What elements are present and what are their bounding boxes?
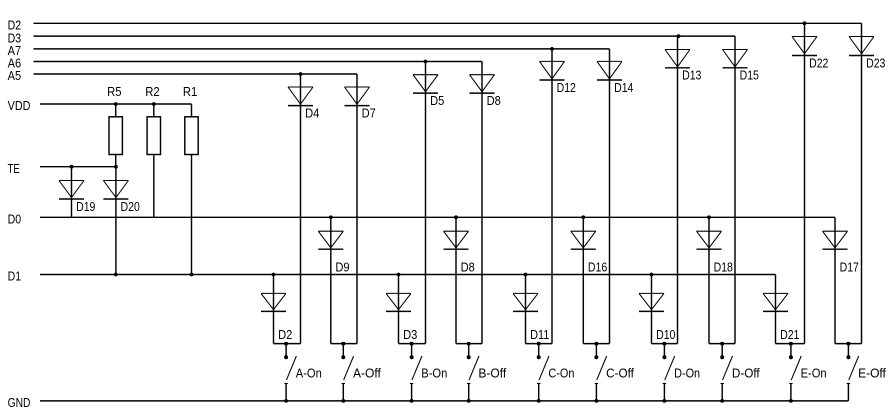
junction dot on join bar B-On bbox=[410, 342, 413, 345]
junction dot on TE at x=71.5 bbox=[70, 165, 74, 169]
switch /D-Off bbox=[720, 344, 760, 401]
wire pair join bar C-On bbox=[526, 343, 553, 345]
wire rail D0 bbox=[40, 216, 835, 218]
diode D13 (column 14) with wire down to pair join bbox=[665, 36, 701, 344]
diode D20 bbox=[103, 167, 139, 275]
wire rail A6 bbox=[34, 61, 483, 63]
diode D8 (column 7) with wire down to pair join bbox=[444, 217, 475, 343]
switch /A-Off bbox=[341, 344, 381, 401]
resistor R1 bbox=[183, 84, 198, 154]
svg-text:A-On: A-On bbox=[296, 365, 322, 380]
junction dot on D1 at x=191.5 bbox=[190, 273, 194, 277]
svg-text:D13: D13 bbox=[682, 68, 701, 83]
wire rail D2 bbox=[34, 22, 862, 24]
diode D11 (column 9) with wire down to pair join bbox=[513, 275, 549, 344]
wire rail VDD bbox=[40, 103, 192, 105]
switch /C-On bbox=[537, 344, 575, 401]
diode D5 (column 6) with wire down to pair join bbox=[413, 62, 444, 344]
wire pair join bar B-Off bbox=[456, 343, 482, 345]
junction dot on join bar A-On bbox=[284, 342, 287, 345]
junction dot on join bar E-On bbox=[789, 342, 792, 345]
junction dot on D0 at x=330.8 bbox=[329, 215, 333, 219]
wire rail D1 bbox=[40, 274, 776, 276]
diode D3 (column 5) with wire down to pair join bbox=[386, 275, 417, 344]
diode D9 (column 3) with wire down to pair join bbox=[318, 217, 349, 343]
diode D18 (column 15) with wire down to pair join bbox=[697, 217, 733, 343]
junction dot on D1 at x=525.5 bbox=[524, 273, 528, 277]
svg-text:D4: D4 bbox=[305, 105, 319, 120]
diode D15 (column 16) with wire down to pair join bbox=[723, 36, 759, 344]
junction dot on join bar A-Off bbox=[342, 342, 345, 345]
svg-text:D16: D16 bbox=[588, 259, 607, 274]
wire rail TE bbox=[40, 166, 116, 168]
svg-text:B-Off: B-Off bbox=[478, 365, 506, 380]
junction dot on D0 at x=456 bbox=[454, 215, 458, 219]
switch /E-Off bbox=[846, 344, 886, 401]
junction dot on GND at x=411.6 bbox=[410, 399, 414, 403]
wire rail A5 bbox=[34, 73, 358, 75]
junction dot on VDD at x=115.7 bbox=[114, 102, 118, 106]
svg-text:D9: D9 bbox=[335, 259, 349, 274]
diode D21 (column 17) with wire down to pair join bbox=[763, 275, 799, 344]
net label D1 bbox=[8, 269, 22, 284]
junction dot on D3 at x=678.5 bbox=[677, 34, 681, 38]
switch /E-On bbox=[789, 344, 827, 401]
net label TE bbox=[8, 161, 20, 176]
net label A6 bbox=[8, 56, 22, 71]
switch /B-On bbox=[410, 344, 448, 401]
svg-text:D-Off: D-Off bbox=[732, 365, 760, 380]
svg-text:R1: R1 bbox=[183, 84, 197, 99]
svg-text:B-On: B-On bbox=[421, 365, 447, 380]
diode D17 (column 19) with wire down to pair join bbox=[823, 217, 859, 343]
svg-text:D12: D12 bbox=[557, 80, 576, 95]
junction dot on A5 at x=300.5 bbox=[299, 72, 303, 76]
junction dot on D2 at x=804.5 bbox=[803, 21, 807, 25]
switch /A-On bbox=[284, 344, 322, 401]
junction dot on GND at x=722.2 bbox=[720, 399, 724, 403]
svg-text:GND: GND bbox=[8, 395, 31, 410]
svg-text:D0: D0 bbox=[8, 212, 22, 227]
switch /B-Off bbox=[467, 344, 507, 401]
net label D2 bbox=[8, 18, 22, 33]
net label D3 bbox=[8, 30, 22, 45]
diode D12 (column 10) with wire down to pair join bbox=[540, 49, 576, 344]
diode D16 (column 11) with wire down to pair join bbox=[571, 217, 607, 343]
wire pair join bar A-Off bbox=[331, 343, 357, 345]
net label VDD bbox=[8, 98, 31, 113]
junction dot on TE at x=115.9 bbox=[114, 165, 118, 169]
junction dot on GND at x=538.7 bbox=[537, 399, 541, 403]
junction dot on A6 at x=425.5 bbox=[424, 60, 428, 64]
junction dot on D0 at x=709 bbox=[707, 215, 711, 219]
svg-text:D22: D22 bbox=[809, 55, 828, 70]
junction dot on GND at x=790.9 bbox=[789, 399, 793, 403]
diode D8 (column 8) with wire down to pair join bbox=[470, 62, 501, 344]
svg-text:D8: D8 bbox=[461, 259, 475, 274]
diode D4 (column 2) with wire down to pair join bbox=[288, 74, 319, 344]
wire R2 bottom to D0 bbox=[153, 155, 155, 218]
wire R5 bottom to TE bbox=[115, 155, 117, 167]
junction dot on D1 at x=115.7 bbox=[114, 273, 118, 277]
junction dot on join bar D-On bbox=[663, 342, 666, 345]
net label D0 bbox=[8, 212, 22, 227]
switch /D-On bbox=[662, 344, 700, 401]
junction dot on D0 at x=583.3 bbox=[581, 215, 585, 219]
svg-text:TE: TE bbox=[8, 161, 20, 176]
svg-text:D17: D17 bbox=[840, 259, 859, 274]
svg-text:D5: D5 bbox=[430, 93, 444, 108]
junction dot on join bar D-Off bbox=[721, 342, 724, 345]
wire pair join bar E-Off bbox=[835, 343, 862, 345]
wire pair join bar C-Off bbox=[583, 343, 609, 345]
junction dot on GND at x=664.4 bbox=[663, 399, 667, 403]
wire pair join bar D-On bbox=[652, 343, 678, 345]
svg-text:E-Off: E-Off bbox=[858, 365, 886, 380]
junction dot on join bar B-Off bbox=[467, 342, 470, 345]
diode D10 (column 13) with wire down to pair join bbox=[639, 275, 675, 344]
svg-text:A-Off: A-Off bbox=[353, 365, 381, 380]
junction dot on D1 at x=651.5 bbox=[650, 273, 654, 277]
wire pair join bar B-On bbox=[399, 343, 426, 345]
net label GND bbox=[8, 395, 31, 410]
junction dot on GND at x=596.4 bbox=[595, 399, 599, 403]
resistor R2 bbox=[145, 84, 160, 154]
junction dot on join bar C-Off bbox=[595, 342, 598, 345]
svg-text:C-On: C-On bbox=[548, 365, 574, 380]
junction dot on GND at x=343.3 bbox=[341, 399, 345, 403]
svg-text:C-Off: C-Off bbox=[606, 365, 634, 380]
junction dot on GND at x=468.7 bbox=[467, 399, 471, 403]
svg-text:D11: D11 bbox=[530, 327, 549, 342]
svg-text:E-On: E-On bbox=[801, 365, 827, 380]
junction dot on join bar E-Off bbox=[847, 342, 850, 345]
svg-text:VDD: VDD bbox=[8, 98, 31, 113]
net label A7 bbox=[8, 43, 22, 58]
wire pair join bar E-On bbox=[776, 343, 805, 345]
diode D2 (column 1) with wire down to pair join bbox=[261, 275, 292, 344]
wire pair join bar A-On bbox=[274, 343, 301, 345]
svg-text:D8: D8 bbox=[487, 93, 501, 108]
diode D7 (column 4) with wire down to pair join bbox=[345, 74, 376, 344]
svg-text:A5: A5 bbox=[8, 68, 22, 83]
svg-text:D15: D15 bbox=[740, 68, 759, 83]
svg-text:D3: D3 bbox=[403, 327, 417, 342]
svg-text:D14: D14 bbox=[614, 80, 633, 95]
svg-text:D1: D1 bbox=[8, 269, 22, 284]
svg-text:D23: D23 bbox=[866, 55, 885, 70]
junction dot on join bar C-On bbox=[537, 342, 540, 345]
junction dot on VDD at x=153.8 bbox=[152, 102, 156, 106]
net label A5 bbox=[8, 68, 22, 83]
resistor R5 bbox=[107, 84, 122, 154]
svg-text:D20: D20 bbox=[121, 199, 140, 214]
svg-text:R2: R2 bbox=[145, 84, 159, 99]
wire pair join bar D-Off bbox=[709, 343, 735, 345]
junction dot on A7 at x=552 bbox=[550, 47, 554, 51]
junction dot on D1 at x=398.5 bbox=[397, 273, 401, 277]
svg-text:D7: D7 bbox=[362, 105, 376, 120]
svg-text:D18: D18 bbox=[714, 259, 733, 274]
wire rail D3 bbox=[34, 35, 736, 37]
wire rail A7 bbox=[34, 48, 610, 50]
diode D23 (column 20) with wire down to pair join bbox=[849, 23, 885, 343]
svg-text:D21: D21 bbox=[780, 327, 799, 342]
junction dot on GND at x=286.1 bbox=[284, 399, 288, 403]
svg-text:D19: D19 bbox=[76, 199, 95, 214]
wire R1 bottom to D1 bbox=[191, 155, 193, 275]
junction dot on D1 at x=273.5 bbox=[272, 273, 276, 277]
svg-text:R5: R5 bbox=[107, 84, 121, 99]
switch /C-Off bbox=[594, 344, 634, 401]
wire rail GND bbox=[40, 400, 848, 402]
svg-text:D-On: D-On bbox=[674, 365, 700, 380]
svg-text:D10: D10 bbox=[656, 327, 675, 342]
diode D22 (column 18) with wire down to pair join bbox=[792, 23, 828, 343]
diode D14 (column 12) with wire down to pair join bbox=[597, 49, 633, 344]
svg-text:D2: D2 bbox=[278, 327, 292, 342]
diode D19 bbox=[59, 167, 95, 218]
